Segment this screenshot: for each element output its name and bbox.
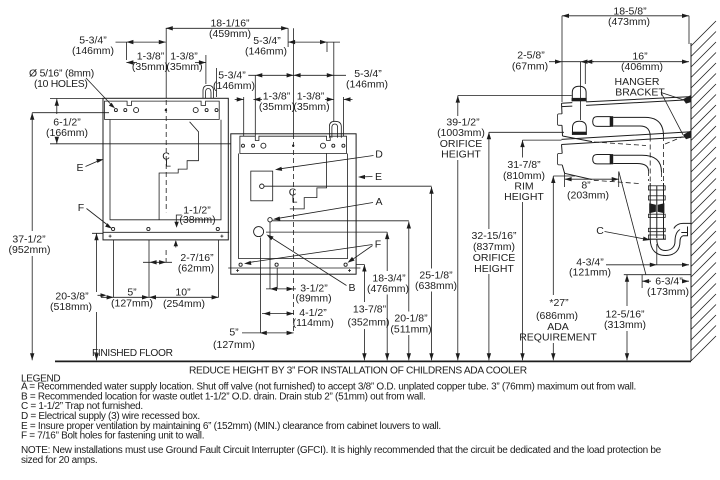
dim 27 ADA vertical: [552, 176, 554, 360]
svg-text:BRACKET: BRACKET: [615, 87, 665, 99]
upper unit push button: [557, 114, 562, 125]
svg-text:(89mm): (89mm): [296, 293, 332, 305]
dim 20-3/8 vertical: [92, 233, 103, 360]
ext line 205.9 (hook): [205, 55, 207, 84]
ref line rim: [523, 139, 562, 141]
svg-text:F: F: [78, 202, 84, 214]
lower drain tube hidden: [649, 171, 662, 181]
dim 20-1/8 vertical: [408, 222, 410, 361]
upper unit bottom hidden edge: [594, 137, 683, 146]
waste outlet location B: [254, 227, 264, 237]
middle panel centerline (dashed): [293, 134, 295, 333]
middle bracket hole 5: [332, 144, 335, 147]
middle bracket center dot: [292, 145, 294, 147]
label 6-3/4: [652, 277, 681, 286]
dim 3-1/2 line: [266, 288, 296, 290]
svg-text:(313mm): (313mm): [604, 319, 646, 331]
ext line 243.7: [243, 97, 245, 136]
dim 4-3/4 line: [606, 244, 689, 265]
left panel centerline (dashed): [165, 100, 167, 262]
lower bubbler dome: [573, 121, 587, 135]
left bracket hole 2: [124, 109, 127, 112]
svg-text:(35mm): (35mm): [259, 101, 295, 113]
svg-text:A: A: [375, 196, 382, 208]
ref line from B to 18-3/4: [266, 231, 387, 233]
ext line 126.4: [125, 42, 127, 60]
middle bracket hole 1: [242, 144, 245, 147]
label 12-5/16: [603, 307, 647, 330]
leader E left: [86, 161, 99, 167]
svg-text:(127mm): (127mm): [111, 298, 153, 310]
svg-text:(114mm): (114mm): [293, 317, 334, 329]
P-trap bowl outer: [650, 233, 687, 256]
P-trap bowl inner: [657, 230, 680, 251]
dim 18-1/16 line: [166, 27, 288, 29]
dim 5-3/4 mid-left line: [248, 74, 293, 76]
upper bubbler dome: [572, 86, 586, 101]
lower bubbler base band: [572, 132, 587, 135]
svg-text:(35mm): (35mm): [132, 61, 168, 73]
svg-text:(952mm): (952mm): [8, 244, 50, 256]
ext line 216.6: [216, 68, 218, 97]
upper drain outlet band: [610, 116, 613, 127]
dim 6-1/2 vertical: [50, 99, 103, 144]
leader hanger 2: [661, 93, 683, 135]
leader E right: [363, 176, 373, 178]
pipe union nut: [649, 203, 664, 213]
dim 4-1/2 line: [262, 313, 294, 315]
svg-text:(473mm): (473mm): [608, 16, 650, 28]
svg-text:(459mm): (459mm): [209, 28, 251, 40]
svg-text:13-7/8”: 13-7/8”: [353, 304, 387, 316]
svg-text:(518mm): (518mm): [50, 301, 92, 313]
rim reference long line: [50, 143, 231, 145]
left bracket center dot: [165, 109, 167, 111]
svg-text:E: E: [76, 162, 83, 174]
dim 5-3/4 left line: [116, 41, 166, 43]
svg-text:(62mm): (62mm): [178, 263, 214, 275]
dim 5/10 bottom-left line: [101, 296, 219, 298]
left panel bottom strip: [103, 231, 229, 233]
svg-text:B: B: [348, 282, 355, 294]
ext line from A down: [269, 223, 271, 289]
dim 2-5/8 line: [549, 16, 594, 120]
leader A: [279, 203, 373, 219]
left panel mounting hook: [203, 85, 214, 98]
dim 1-1/2 bracket and arrows: [176, 215, 182, 248]
pipe union band 3: [648, 214, 665, 217]
middle strip cross mark R: [348, 269, 351, 272]
svg-text:5”: 5”: [229, 327, 239, 339]
left panel top mounting bracket: [105, 101, 220, 119]
upper unit top rim lines: [562, 97, 692, 107]
lower unit bottom edge: [565, 173, 592, 179]
svg-text:REDUCE HEIGHT BY 3” FOR INSTAL: REDUCE HEIGHT BY 3” FOR INSTALLATION OF …: [189, 366, 527, 377]
dim 8 line: [565, 172, 619, 188]
left bracket hole 1: [114, 109, 117, 112]
middle panel outline: [231, 134, 356, 274]
middle bracket hole 4: [321, 143, 326, 148]
projection line trap: [619, 172, 646, 276]
ext line 327: [326, 42, 328, 52]
middle panel top mounting bracket: [240, 136, 347, 153]
svg-text:10”: 10”: [175, 287, 191, 299]
svg-text:E: E: [375, 171, 382, 183]
ref line trap outlet: [624, 274, 691, 276]
leader hanger 1: [661, 93, 684, 101]
svg-text:(121mm): (121mm): [569, 267, 611, 279]
left bracket hole 3: [134, 108, 139, 113]
upper drain tube: [613, 117, 663, 136]
dim 25-1/8 vertical: [431, 187, 433, 361]
pipe union band 4: [648, 228, 665, 231]
dim 1-3/8 left pair arrows: [126, 60, 205, 64]
left strip cross mark L: [109, 235, 112, 238]
middle panel centerline extension: [293, 28, 295, 134]
middle panel inner recess: [239, 154, 348, 259]
upper unit bottom edge: [563, 136, 593, 142]
hanger bracket lower: [683, 131, 691, 139]
svg-text:REQUIREMENT: REQUIREMENT: [519, 332, 597, 344]
middle bracket hole 6: [342, 144, 345, 147]
floor line: [55, 360, 691, 362]
left panel outline: [103, 98, 228, 240]
left bracket hole 4: [193, 108, 198, 113]
svg-text:D: D: [375, 149, 383, 161]
lower drain outlet band: [610, 154, 613, 164]
svg-text:L: L: [292, 194, 298, 206]
svg-text:HEIGHT: HEIGHT: [474, 263, 514, 275]
middle panel bottom hole 1: [239, 263, 242, 266]
upper drain outlet body: [593, 117, 611, 127]
svg-text:F: F: [375, 239, 381, 251]
dim 16 line: [585, 62, 689, 84]
svg-text:Ø 5/16” (8mm): Ø 5/16” (8mm): [29, 69, 94, 80]
dim 18-3/4 vertical: [386, 232, 388, 360]
pipe union band 1: [648, 186, 665, 190]
dim 5 mid line: [242, 332, 294, 334]
pipe union band 5: [648, 235, 665, 239]
middle strip cross mark L: [236, 269, 239, 272]
svg-text:(38mm): (38mm): [179, 214, 215, 226]
ref line lower orifice: [489, 131, 564, 133]
svg-text:(166mm): (166mm): [46, 127, 88, 139]
dim 31-7/8 vertical: [522, 140, 524, 360]
ext lines from left panel bottom holes: [114, 240, 219, 297]
electrical box D: [251, 171, 273, 201]
svg-text:(146mm): (146mm): [213, 80, 255, 92]
ext line wall top: [688, 16, 690, 44]
upper bubbler base band: [572, 98, 587, 101]
drain pipe body: [650, 183, 663, 239]
electrical box knockout circle: [260, 184, 264, 188]
left bracket hole 6: [215, 109, 218, 112]
ref line ADA: [553, 175, 575, 177]
leader O 5/16: [86, 78, 112, 106]
svg-text:(406mm): (406mm): [621, 61, 663, 73]
left strip cross mark R: [220, 235, 223, 238]
hanger bracket upper: [683, 95, 691, 103]
ext line 333.8: [333, 42, 335, 121]
svg-text:NOTE: New installations must u: NOTE: New installations must use Ground …: [21, 445, 662, 456]
svg-text:L: L: [165, 158, 171, 170]
svg-text:(173mm): (173mm): [647, 286, 689, 298]
middle panel hook inner slot: [332, 124, 338, 138]
P-trap outlet top: [674, 223, 691, 232]
middle bracket hole 2: [252, 144, 255, 147]
dim 6-3/4 line: [642, 275, 689, 289]
svg-text:(254mm): (254mm): [163, 298, 205, 310]
leader F right 2: [352, 246, 373, 260]
dim 2-7/16 line: [143, 261, 172, 263]
ref line upper orifice: [458, 95, 572, 97]
ext line hole 277 down: [276, 268, 278, 289]
svg-text:(35mm): (35mm): [166, 61, 202, 73]
svg-text:HEIGHT: HEIGHT: [504, 191, 544, 203]
middle panel interior step outline: [290, 153, 327, 209]
ext line from B down: [260, 238, 262, 333]
left panel bottom hole 1: [112, 227, 115, 230]
svg-text:(511mm): (511mm): [390, 324, 431, 336]
middle bracket hole 3: [261, 143, 266, 148]
svg-text:(10 HOLES): (10 HOLES): [34, 79, 88, 90]
dim 13-7/8 vertical: [356, 265, 364, 361]
svg-text:(67mm): (67mm): [512, 61, 548, 73]
leader F left: [87, 209, 108, 225]
left panel bottom hole 3: [216, 227, 219, 230]
svg-text:(127mm): (127mm): [213, 339, 255, 351]
svg-text:C: C: [596, 225, 604, 237]
left bracket hole 5: [205, 109, 208, 112]
left panel hook inner slot: [206, 89, 212, 99]
leader C right: [605, 232, 645, 239]
svg-text:(638mm): (638mm): [415, 280, 457, 292]
ext line 255.3: [254, 75, 256, 136]
middle panel bottom hole 3: [344, 263, 347, 266]
svg-text:*27”: *27”: [549, 297, 569, 309]
dim 1-3/8 right pair arrows: [237, 97, 351, 101]
svg-text:(146mm): (146mm): [72, 45, 114, 57]
svg-text:(352mm): (352mm): [347, 317, 389, 329]
wall line: [690, 43, 692, 361]
dim 32-15/16 vertical: [488, 132, 490, 360]
dim 12-5/16 vertical: [626, 275, 628, 361]
ref line from A to 20-1/8: [273, 220, 409, 222]
leader D: [280, 156, 374, 169]
svg-text:sized for 20 amps.: sized for 20 amps.: [21, 455, 97, 466]
lower unit top rim lines: [562, 132, 692, 145]
svg-text:(35mm): (35mm): [293, 101, 329, 113]
ext line 343.5: [343, 97, 345, 136]
left panel interior step outline: [159, 122, 198, 220]
middle panel bottom strip: [228, 267, 360, 269]
svg-text:FINISHED FLOOR: FINISHED FLOOR: [92, 348, 173, 359]
svg-text:(203mm): (203mm): [567, 190, 609, 202]
upper unit front face: [562, 103, 563, 136]
dim 18-5/8 line: [562, 15, 689, 17]
middle panel bottom hole 2: [275, 263, 278, 266]
lower unit front face: [562, 145, 565, 174]
svg-text:(146mm): (146mm): [245, 46, 287, 58]
lower unit push button: [557, 153, 562, 165]
left panel inner recess: [110, 120, 221, 220]
dim 37-1/2 vertical: [32, 113, 109, 361]
svg-text:F = 7/16” Bolt holes for faste: F = 7/16” Bolt holes for fastening unit …: [21, 431, 204, 442]
dim 5-3/4 right line: [288, 41, 340, 43]
upper drain tube hidden: [650, 136, 663, 183]
ref line from electrical box to 25-1/8: [264, 185, 432, 187]
left panel bottom hole 2: [147, 227, 150, 230]
pipe union band 2: [648, 196, 665, 200]
svg-text:(476mm): (476mm): [367, 283, 409, 295]
svg-text:(146mm): (146mm): [346, 79, 388, 91]
middle panel mounting hook: [329, 121, 341, 138]
left panel centerline extension: [165, 28, 167, 98]
lower drain tube: [613, 155, 661, 172]
P-trap inlet flange: [648, 238, 666, 240]
lower unit bottom hidden edge: [594, 180, 642, 183]
svg-text:HEIGHT: HEIGHT: [441, 149, 481, 161]
leader B: [271, 238, 347, 286]
ext line 288.1: [287, 28, 289, 47]
lower drain outlet body: [593, 155, 611, 164]
dim 5-3/4 mid-right line: [294, 74, 346, 76]
water supply location A: [268, 218, 272, 222]
leader F right 1: [250, 245, 373, 263]
dim 39-1/2 vertical: [457, 96, 459, 361]
wall hatching: [691, 21, 716, 361]
